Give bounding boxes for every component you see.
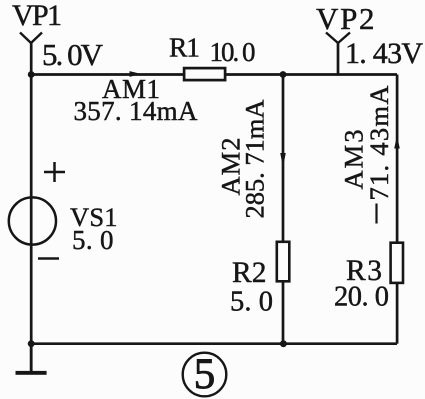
svg-text:357. 14mA: 357. 14mA xyxy=(74,96,199,126)
svg-text:10. 0: 10. 0 xyxy=(210,37,256,67)
junction dot top-middle xyxy=(280,71,287,78)
wire VP2 stem xyxy=(337,43,340,75)
svg-text:5. 0: 5. 0 xyxy=(72,225,114,255)
source VS1 circle xyxy=(9,197,56,244)
figure number circled 5 xyxy=(183,351,227,398)
resistor R3 xyxy=(391,243,403,283)
svg-text:285. 71mA: 285. 71mA xyxy=(240,100,270,219)
junction dot top-left xyxy=(28,71,35,78)
VS1 plus sign xyxy=(44,162,65,182)
wire bottom bus xyxy=(31,342,397,345)
resistor R2 xyxy=(277,242,290,281)
wire top bus xyxy=(31,73,397,76)
VS1 minus sign xyxy=(38,257,59,260)
svg-text:VP2: VP2 xyxy=(316,1,375,36)
wire middle branch lower xyxy=(282,282,285,344)
junction dot bottom-middle xyxy=(280,340,287,347)
svg-text:5. 0: 5. 0 xyxy=(230,286,273,317)
junction dot bottom-left xyxy=(28,340,35,347)
probe VP1 xyxy=(20,33,42,44)
ammeter AM3 arrow xyxy=(394,136,400,149)
svg-text:VP1: VP1 xyxy=(12,0,62,32)
svg-text:R1: R1 xyxy=(169,31,200,62)
wire right branch lower xyxy=(396,283,399,344)
wire right branch upper xyxy=(396,75,399,243)
wire middle branch upper xyxy=(282,75,285,242)
svg-text:71. 43mA: 71. 43mA xyxy=(364,86,394,201)
resistor R1 xyxy=(184,68,225,80)
svg-text:1. 43V: 1. 43V xyxy=(345,37,423,70)
ammeter AM1 arrow xyxy=(130,71,142,77)
svg-text:20. 0: 20. 0 xyxy=(334,281,389,312)
probe VP2 xyxy=(326,33,350,44)
ground xyxy=(16,344,47,375)
wire left rail xyxy=(30,43,33,371)
label AM3 value -71.43mA minus sign xyxy=(375,204,377,224)
svg-text:R2: R2 xyxy=(232,257,267,289)
svg-text:5. 0V: 5. 0V xyxy=(42,37,104,72)
svg-text:5: 5 xyxy=(194,351,216,398)
ammeter AM2 arrow xyxy=(280,153,286,167)
